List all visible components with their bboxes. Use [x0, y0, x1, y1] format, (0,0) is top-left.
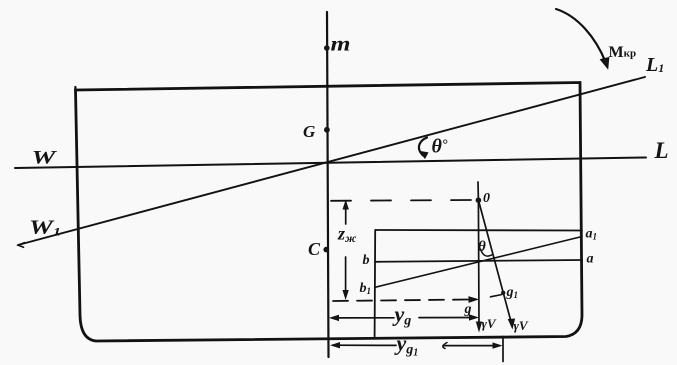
line b-a [375, 260, 582, 262]
dashed line at g level [333, 300, 470, 302]
inner box left edge [374, 230, 377, 337]
svg-text:0: 0 [483, 191, 490, 206]
svg-text:g: g [464, 302, 472, 317]
W1L1 left end hook [18, 243, 24, 248]
short dash toward g1 [491, 295, 502, 297]
small hook arrow on yg1 [443, 343, 447, 349]
svg-text:C: C [308, 239, 321, 259]
point m dot [324, 45, 330, 51]
Mkr curved arrow [556, 9, 606, 62]
small theta arc between force lines [481, 249, 493, 256]
dimension zh vertical double arrow [345, 204, 347, 224]
point G dot [324, 127, 330, 133]
svg-text:m: m [331, 32, 351, 56]
hull outline [76, 83, 583, 342]
svg-text:θ: θ [478, 239, 486, 255]
inclined line b1-a1 [376, 237, 583, 288]
waterline WL [15, 158, 646, 169]
heel angle arc theta [419, 138, 427, 157]
point C dot [323, 247, 329, 253]
hull outline left-top overshoot [74, 87, 76, 92]
dimension yg horizontal [332, 317, 394, 319]
svg-text:b: b [363, 253, 370, 268]
dimension yg1 horizontal [333, 344, 396, 346]
centerline (vertical axis) [327, 12, 329, 357]
svg-text:Мкр: Мкр [609, 44, 637, 61]
inclined force line from O through g1 [478, 200, 511, 324]
svg-text:γV: γV [482, 316, 497, 331]
svg-text:γV: γV [514, 318, 529, 333]
dashed line at O level [331, 199, 473, 202]
vertical force line from O through g [477, 200, 480, 327]
svg-text:L: L [654, 138, 669, 163]
point O dot [476, 197, 482, 203]
point g1 dot [501, 291, 505, 295]
inner box top edge [376, 229, 583, 232]
svg-text:G: G [303, 122, 316, 141]
arrow into g [469, 297, 478, 302]
stub above O [477, 182, 479, 200]
extension tick at g1 foot [502, 337, 504, 362]
inclined waterline W1L1 [18, 77, 645, 245]
svg-text:W: W [32, 148, 58, 169]
svg-text:a: a [587, 252, 594, 267]
